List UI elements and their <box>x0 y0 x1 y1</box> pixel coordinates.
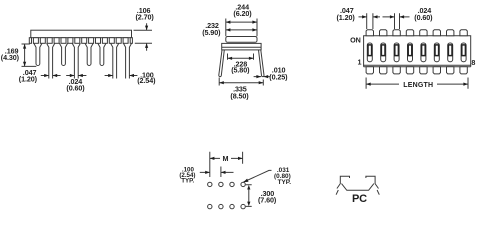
svg-text:LENGTH: LENGTH <box>403 82 433 89</box>
dimension LENGTH <box>366 78 468 89</box>
dimension .232 (5.90) cap top width <box>226 29 257 31</box>
dimension .169 (4.30) pin length <box>22 44 37 66</box>
pin 2 with extension lines <box>47 43 55 78</box>
svg-text:(4.30): (4.30) <box>1 53 20 62</box>
switch slot 8 <box>461 43 466 62</box>
svg-text:(1.20): (1.20) <box>337 13 356 22</box>
pin bump bottom 8 <box>460 67 467 74</box>
pin bump top 4 <box>406 30 413 36</box>
switch slot 2 <box>381 43 386 62</box>
pin 6 <box>98 43 106 65</box>
pin bump top 8 <box>460 30 467 36</box>
dimension .010 (0.25) lead thickness <box>254 76 270 78</box>
pin bump top 1 <box>366 30 373 36</box>
actuator 4 <box>408 45 412 56</box>
pin bump bottom 5 <box>420 67 427 74</box>
actuator 6 <box>435 45 439 56</box>
switch slot 4 <box>408 43 413 62</box>
pin bump bottom 1 <box>366 67 373 74</box>
pin bump top 2 <box>380 30 387 36</box>
switch slot 3 <box>394 43 399 62</box>
dimension .106 (2.70) body height <box>134 23 153 51</box>
switch body (side view) <box>31 30 132 38</box>
svg-text:(6.20): (6.20) <box>233 9 252 18</box>
pin bump bottom 7 <box>447 67 454 74</box>
right leg <box>259 50 265 77</box>
svg-text:(0.25): (0.25) <box>269 73 288 82</box>
dimension .300 (7.60) row spacing <box>246 185 252 207</box>
leader and dimension .031 (0.80) TYP hole diameter <box>244 170 272 182</box>
svg-text:8: 8 <box>471 58 475 67</box>
hole row 2 <box>208 204 212 208</box>
actuator 1 <box>368 45 372 56</box>
svg-text:TYP.: TYP. <box>278 179 292 186</box>
actuator 8 <box>462 45 466 56</box>
dimension .100 (2.54) TYP hole pitch <box>200 167 234 178</box>
svg-text:TYP.: TYP. <box>181 177 194 184</box>
dimension .024 (0.60) pin tip width <box>66 75 86 77</box>
body bottom edge band <box>364 65 471 67</box>
dimension .024 (0.60) pin top width <box>388 13 410 29</box>
pin bump top 5 <box>420 30 427 36</box>
switch slot 6 <box>434 43 439 62</box>
pin bump top 3 <box>393 30 400 36</box>
dimension .100 (2.54) pin pitch <box>105 75 138 77</box>
dimension .244 (6.20) cap base width <box>226 19 257 37</box>
svg-text:(2.70): (2.70) <box>136 13 155 22</box>
svg-text:(1.20): (1.20) <box>19 75 38 84</box>
pin bump top 6 <box>433 30 440 36</box>
actuator 3 <box>395 45 399 56</box>
svg-text:(0.60): (0.60) <box>414 13 433 22</box>
actuator 2 <box>381 45 385 56</box>
switch slot 5 <box>421 43 426 62</box>
svg-text:(8.50): (8.50) <box>230 92 249 101</box>
pin 7 with extension lines <box>111 43 119 78</box>
svg-text:M: M <box>223 154 229 163</box>
dimension .047 (1.20) bump width <box>359 13 389 29</box>
cap (end view top) <box>226 37 257 43</box>
pin bump bottom 4 <box>406 67 413 74</box>
switch slot 7 <box>448 43 453 62</box>
pin 4 with extension lines <box>72 43 80 78</box>
pin 1 <box>34 43 42 65</box>
svg-text:PC: PC <box>352 193 367 205</box>
actuator 7 <box>448 45 452 56</box>
seating standoff teeth band <box>29 38 132 44</box>
PC pin profile outline <box>336 176 379 195</box>
switch slot 1 <box>367 43 372 62</box>
switch body (top view) <box>364 36 471 65</box>
left leg <box>219 50 225 77</box>
svg-text:(5.80): (5.80) <box>231 65 250 74</box>
pin bump bottom 2 <box>380 67 387 74</box>
pin 8 with extension lines <box>123 43 131 78</box>
pin bump bottom 6 <box>433 67 440 74</box>
dimension .228 (5.80) lead span <box>228 54 254 60</box>
pin bump top 7 <box>447 30 454 36</box>
hole row 1 <box>208 182 212 186</box>
svg-text:(2.54): (2.54) <box>137 76 156 85</box>
svg-text:(0.60): (0.60) <box>66 84 85 93</box>
dimension .335 (8.50) overall lead spread <box>219 78 263 86</box>
svg-text:(7.60): (7.60) <box>258 195 277 204</box>
actuator 5 <box>422 45 426 56</box>
svg-text:(5.90): (5.90) <box>202 28 221 37</box>
dimension M <box>210 152 243 177</box>
body (end view) <box>222 43 261 50</box>
pin 3 <box>59 43 67 65</box>
svg-text:1: 1 <box>357 58 361 67</box>
pin bump bottom 3 <box>393 67 400 74</box>
svg-text:ON: ON <box>350 36 361 45</box>
pin 5 <box>85 43 93 65</box>
dimension .047 (1.20) pin width <box>41 75 61 77</box>
